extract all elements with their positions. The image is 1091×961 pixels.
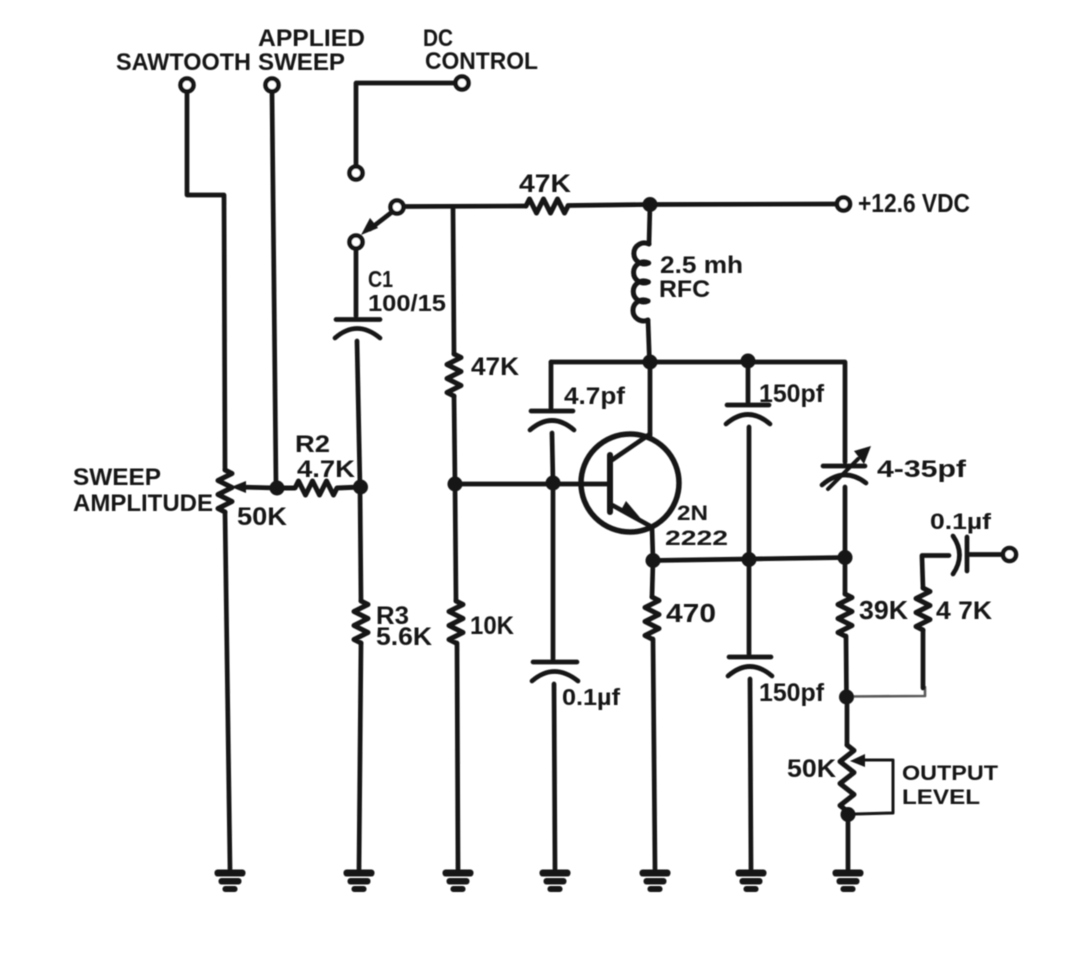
wire: 47K to supply terminal [568,204,837,206]
wire: R2/R3 node down to R3 [360,487,361,601]
node: top rail / RFC [643,197,658,212]
wire: emitter lead down [652,527,653,560]
resistor 470 [645,597,659,639]
switch pole contact [391,201,404,214]
switch throw contact [350,236,363,249]
ground (150pf line) [736,870,767,893]
svg-text:47K: 47K [471,353,519,381]
ground (sawtooth line) [215,870,246,893]
node: 39K / 4.7K link [839,690,854,705]
wire: second rail (4.7pf / 150pf / 4-35pf top) [551,362,845,462]
switch blade with arrow [370,212,392,229]
svg-text:+12.6 VDC: +12.6 VDC [858,188,970,218]
resistor 10K [449,601,463,643]
svg-text:C1: C1 [368,266,393,292]
variable capacitor arrow [828,459,858,489]
wire: output cap to terminal [968,552,1003,557]
node: base / 4.7pf [546,476,561,491]
transistor collector stroke [612,434,650,460]
wire: node to 50K pot [845,697,850,745]
svg-text:100/15: 100/15 [368,290,446,316]
transistor Q1 2N2222 circle [581,434,679,532]
wire: base line to transistor [455,482,607,487]
resistor 47K (vertical) [447,354,461,396]
pot wiper arrowhead [231,481,246,493]
transistor base bar [607,455,613,512]
node: emitter rail / 39K [838,550,853,565]
svg-text:2.5 mh: 2.5 mh [660,252,743,279]
node: rail2 / collector [643,355,658,370]
svg-text:50K: 50K [237,503,287,531]
potentiometer 50K SWEEP AMPLITUDE (element on sawtooth line) [218,470,232,512]
variable capacitor arrowhead [854,446,871,464]
svg-text:LEVEL: LEVEL [902,786,980,809]
wire: 50K to ground [846,811,851,869]
svg-text:0.1µf: 0.1µf [562,684,620,710]
variable capacitor 4-35pf top plate [823,464,865,469]
svg-text:SAWTOOTH: SAWTOOTH [116,49,251,76]
ground symbols [215,870,864,893]
switch contact upper [350,167,363,180]
wire: collector drop from rail node [648,362,653,436]
resistor R3 5.6K [354,601,368,643]
ground (470 line) [640,870,671,893]
wire: 4.7pf to base node and down to 0.1uf [552,433,553,659]
wire: 150pf bottom to ground [750,679,751,869]
svg-text:470: 470 [666,598,716,628]
ground (50K line) [833,870,864,893]
svg-text:0.1µf: 0.1µf [930,509,992,534]
wire: vertical from top rail (switch side) down through 47K and 10K [453,207,454,355]
wire: RFC to collector rail node [648,320,650,362]
wire: 47K vert to base node [454,396,455,484]
ground (R3 line) [344,870,375,893]
wire: 4.7K top to output cap [922,556,949,589]
wire: thin link 50K node to 4.7K bottom [847,687,925,697]
terminal +12.6 VDC [837,198,850,211]
terminal output [1003,548,1016,561]
node: emitter rail / 150pf [742,552,757,567]
svg-text:RFC: RFC [659,276,710,303]
wire: R3 to ground [359,643,361,869]
svg-text:4-35pf: 4-35pf [877,456,967,483]
wire: 470 to ground [653,639,655,869]
wire: 0.1uf to ground [554,684,555,869]
svg-text:50K: 50K [787,755,836,783]
svg-text:10K: 10K [470,612,514,640]
resistor 39K [838,594,852,636]
node: 50K bottom / wiper [841,807,856,822]
resistor 47K (top horizontal) [526,199,568,213]
transistor emitter arrowhead [620,501,642,520]
wire: 150pf top drop [746,361,751,402]
capacitor C1 bottom curved plate [335,329,380,339]
svg-text:AMPLITUDE: AMPLITUDE [73,490,213,517]
wire: DC CONTROL to switch upper contact [356,83,456,166]
svg-text:4.7K: 4.7K [297,456,356,483]
svg-text:47K: 47K [519,170,571,198]
capacitor 150pf (top) bottom curved plate [726,415,770,425]
wire: base node down to 10K [455,484,456,601]
node: applied sweep / R2 [270,481,285,496]
svg-text:SWEEP: SWEEP [73,464,161,491]
svg-text:4 7K: 4 7K [936,597,992,625]
svg-text:CONTROL: CONTROL [425,48,538,75]
capacitor 150pf (bottom) bottom curved plate [728,667,772,677]
wire: emitter rail [653,558,845,561]
wire: 39K to 50K node [844,636,849,697]
capacitor 150pf (bottom) top plate [729,655,771,660]
svg-text:R2: R2 [295,431,330,458]
capacitor C1 top plate [336,317,380,322]
wire: C1 to R2/R3 node [357,341,360,487]
svg-text:APPLIED: APPLIED [258,25,365,52]
wire: 150pf to emitter rail and down [747,427,752,654]
capacitor 150pf (top) top plate [727,403,769,408]
wire: APPLIED SWEEP down to R2 node [272,92,276,487]
wire: pot bottom to ground [225,512,230,869]
node: emitter / 470 [646,553,661,568]
node: base / 47K-10K [448,477,463,492]
wire: 4.7K bottom lead [921,630,926,688]
wire: 470 drop [652,561,653,598]
wire: top rail junction down to RFC [649,205,650,245]
svg-text:39K: 39K [859,595,908,625]
transistor emitter stroke [612,505,652,527]
wire: switch throw down to C1 [354,250,359,316]
svg-text:150pf: 150pf [759,380,825,408]
inductor 2.5mh RFC [633,243,649,321]
capacitor 0.1uf output right plate [965,537,970,571]
wire: 4.7pf drop [549,362,554,408]
terminal SAWTOOTH [181,79,194,92]
svg-text:2N: 2N [677,502,708,525]
wire: emitter node down to 39K [843,558,848,595]
node: rail2 / 150pf [741,354,756,369]
wire: 4-35pf to emitter rail node [843,487,848,558]
50K wiper arrow line [855,760,893,814]
svg-text:OUTPUT: OUTPUT [902,762,998,785]
svg-text:2222: 2222 [665,527,728,550]
wire: main top rail from switch to +12.6VDC [403,204,526,209]
svg-text:5.6K: 5.6K [376,623,432,651]
wire: SAWTOOTH input down with jog [187,92,225,471]
resistor 4.7K (output) [916,588,930,630]
capacitor 0.1uf output left curved plate [953,536,960,574]
capacitor 0.1uf (middle) top plate [533,660,577,665]
terminal APPLIED SWEEP [266,79,279,92]
svg-text:SWEEP: SWEEP [258,49,345,76]
capacitor 0.1uf (middle) bottom curved plate [532,672,578,682]
terminal circles [181,77,1017,562]
ground (10K line) [443,870,474,893]
variable capacitor 4-35pf bottom curved plate [822,475,866,485]
switch blade arrowhead [361,218,378,235]
ground (0.1uf line) [540,870,571,893]
wire: 10K to ground [457,643,458,869]
terminal DC CONTROL [456,77,469,90]
potentiometer 50K output level [840,745,854,811]
capacitor 4.7pf bottom curved plate [530,421,574,431]
wire: pot wiper to node A [238,487,277,488]
node: R2 / C1 / R3 [353,480,368,495]
svg-text:150pf: 150pf [759,679,825,707]
svg-text:4.7pf: 4.7pf [564,383,626,410]
capacitor 4.7pf top plate [531,409,573,414]
50K wiper arrowhead [850,754,865,767]
resistor R2 4.7K [279,481,361,495]
